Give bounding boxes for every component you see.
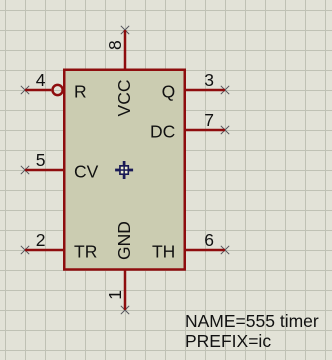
svg-text:TR: TR [74,241,97,261]
svg-text:PREFIX=ic: PREFIX=ic [185,331,271,351]
svg-text:2: 2 [36,230,46,250]
svg-text:NAME=555 timer: NAME=555 timer [185,311,319,331]
svg-text:VCC: VCC [114,80,134,117]
svg-text:Q: Q [162,81,176,101]
svg-text:R: R [74,81,87,101]
svg-text:8: 8 [105,40,125,50]
svg-text:4: 4 [36,70,46,90]
svg-text:GND: GND [114,221,134,260]
svg-text:6: 6 [204,230,214,250]
svg-text:3: 3 [204,70,214,90]
svg-text:CV: CV [74,161,99,181]
svg-text:7: 7 [204,110,214,130]
svg-text:DC: DC [150,121,175,141]
svg-text:5: 5 [36,150,46,170]
svg-text:1: 1 [105,290,125,300]
svg-text:TH: TH [152,241,175,261]
